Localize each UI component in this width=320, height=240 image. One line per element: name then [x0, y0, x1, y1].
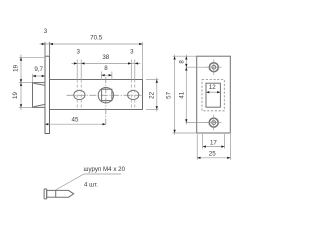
svg-text:19: 19: [13, 64, 20, 71]
arrows 3/38/3: [74, 62, 138, 64]
horizontal centerline: [67, 94, 142, 96]
screw threaded tip: [56, 190, 74, 197]
svg-text:8: 8: [179, 60, 186, 64]
svg-text:3: 3: [44, 28, 48, 35]
dim 9.7 line + arrows: [33, 75, 46, 77]
screw shank: [47, 190, 56, 197]
top screw hole crosshair: [206, 60, 222, 75]
faceplate (side view edge): [45, 56, 50, 133]
dim 3 faceplate thickness: extension lines: [45, 42, 50, 56]
dim 9.7: extension stub: [32, 74, 34, 82]
svg-text:8: 8: [104, 65, 108, 72]
right screw-post hole: [128, 90, 139, 99]
dim 19/19 left: extension lines: [19, 55, 44, 111]
svg-text:57: 57: [166, 91, 173, 98]
arrows 8: [101, 74, 112, 76]
faceplate plate: [197, 56, 231, 133]
bottom screw hole crosshair: [206, 115, 222, 130]
vertical centerline through square hole: [105, 77, 107, 127]
svg-text:45: 45: [72, 116, 79, 123]
dim 22 body height: extension lines: [146, 78, 159, 112]
top screw hole: [209, 63, 218, 72]
dim 12 square width: [206, 91, 220, 93]
svg-text:25: 25: [209, 151, 216, 158]
svg-text:шуруп M4 x 20: шуруп M4 x 20: [84, 166, 126, 173]
right hole hidden slot lines: [131, 80, 135, 110]
svg-text:3: 3: [130, 48, 134, 55]
square spindle opening: [206, 83, 220, 107]
spindle square hole: [102, 89, 112, 100]
dim 8 / 41: shared dimension line: [186, 55, 210, 125]
svg-text:4 шт.: 4 шт.: [84, 181, 98, 188]
svg-text:38: 38: [102, 54, 109, 61]
dim 25: extension lines: [197, 134, 230, 160]
spindle hole circle: [98, 88, 113, 103]
arrows for 3 (outside) and 70.5: [42, 43, 143, 45]
svg-text:19: 19: [12, 92, 19, 99]
svg-text:22: 22: [149, 91, 156, 98]
70.5 right extension line: [142, 42, 144, 79]
case outline (hidden, dashed): [202, 80, 224, 111]
arrows 19/19: [20, 57, 22, 107]
svg-text:70.5: 70.5: [90, 35, 103, 42]
left screw-post hole: [74, 90, 85, 99]
bottom screw hole: [209, 118, 218, 127]
svg-text:9,7: 9,7: [34, 66, 43, 73]
svg-text:3: 3: [76, 49, 80, 56]
dim 57: extension lines: [173, 55, 196, 135]
dim 3 + 70.5 dimension line: [40, 43, 143, 45]
dim row 3/38/3: extension lines above holes: [72, 60, 141, 80]
svg-text:41: 41: [178, 91, 185, 98]
dim 45: [45, 123, 106, 125]
dim 17: extension lines: [203, 134, 225, 149]
left hole hidden slot lines: [77, 80, 81, 110]
bolt (latch tongue): [33, 83, 46, 108]
svg-text:12: 12: [209, 84, 216, 91]
screw head: [44, 189, 47, 199]
latch body (side view): [50, 80, 143, 110]
screw leader line: [56, 174, 122, 190]
dim 8: extension stubs: [101, 72, 112, 81]
svg-text:17: 17: [210, 140, 217, 147]
